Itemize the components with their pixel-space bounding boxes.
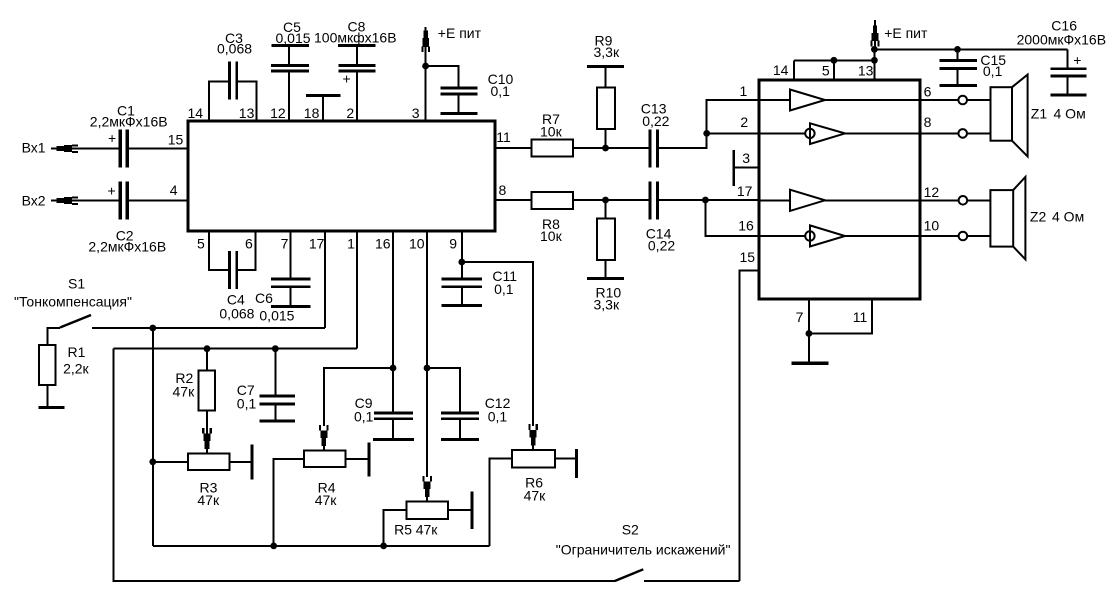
svg-text:4 Ом: 4 Ом xyxy=(1052,209,1084,225)
resistor R7 xyxy=(532,140,574,157)
junction dot R8-C14 xyxy=(602,197,609,204)
svg-text:4 Ом: 4 Ом xyxy=(1054,106,1086,122)
capacitor C8 xyxy=(338,44,376,73)
inverting circle A4 xyxy=(805,231,814,240)
capacitor C6 xyxy=(271,278,311,309)
svg-text:Вх2: Вх2 xyxy=(22,193,46,209)
capacitor C3 xyxy=(228,62,238,100)
svg-text:1: 1 xyxy=(347,236,355,252)
svg-text:0,1: 0,1 xyxy=(491,83,511,99)
wire R7 to C13 xyxy=(573,147,649,149)
svg-text:3: 3 xyxy=(742,150,750,166)
resistor R9 xyxy=(605,129,607,148)
svg-text:4: 4 xyxy=(170,182,178,198)
wire C5 top lead xyxy=(288,47,290,64)
junction dot power rail C15 xyxy=(954,46,961,53)
wire bottom bus xyxy=(153,545,490,547)
resistor R8 xyxy=(532,192,574,209)
wire pin 12 to Z2 xyxy=(920,199,959,201)
svg-text:0,22: 0,22 xyxy=(642,113,669,129)
svg-text:18: 18 xyxy=(304,105,320,121)
svg-text:5: 5 xyxy=(822,63,830,79)
wire power rail xyxy=(874,48,1067,50)
IC U1 (main amplifier IC) xyxy=(188,121,495,231)
junction dot U2 pin17 node xyxy=(702,197,709,204)
wiper arrow R4 xyxy=(319,425,329,446)
svg-text:12: 12 xyxy=(270,105,286,121)
wire C9 bottom lead xyxy=(392,420,394,438)
op-amp triangle A3 xyxy=(790,190,825,211)
svg-text:15: 15 xyxy=(168,132,184,148)
wire left loop to S2 xyxy=(113,349,615,581)
wire branch to pin 16 of U2 xyxy=(705,200,759,236)
capacitor C12 xyxy=(441,412,479,442)
svg-text:3,3к: 3,3к xyxy=(594,44,620,60)
wire pin 14 top xyxy=(793,60,795,80)
R4 right terminal xyxy=(345,458,367,460)
op-amp A3 xyxy=(759,199,790,201)
op-amp triangle A1 xyxy=(790,90,825,111)
resistor R10 xyxy=(605,200,607,218)
wire pin 2 up xyxy=(356,73,358,122)
svg-text:15: 15 xyxy=(740,249,756,265)
wire line B (feedback bus) xyxy=(113,348,357,350)
wire pin 9 down xyxy=(461,231,463,278)
speaker Z1 xyxy=(991,87,1013,141)
wire branch to C12 xyxy=(427,368,460,412)
svg-text:"Ограничитель искажений": "Ограничитель искажений" xyxy=(556,542,731,558)
svg-text:3: 3 xyxy=(412,105,420,121)
svg-text:0,1: 0,1 xyxy=(983,63,1003,79)
wiper arrow R5 xyxy=(422,476,432,497)
capacitor C7 xyxy=(274,349,276,395)
svg-text:C6: C6 xyxy=(255,290,273,306)
svg-text:+: + xyxy=(343,71,351,87)
potentiometer R6 xyxy=(512,450,555,468)
junction dot R3 left xyxy=(149,458,156,465)
wire top bracket xyxy=(794,59,874,61)
speaker Z2 xyxy=(990,190,1013,247)
junction dot R2 top xyxy=(204,345,211,352)
wire C11 bottom lead xyxy=(461,288,463,304)
wire pin 8 to Z1 xyxy=(920,132,958,134)
pin 3 stub of U2 xyxy=(734,166,759,168)
svg-text:47к: 47к xyxy=(315,492,338,508)
svg-text:0,015: 0,015 xyxy=(276,30,311,46)
wire pin 7 down xyxy=(289,231,291,278)
capacitor C4 xyxy=(228,251,238,289)
wire pin 5 top xyxy=(833,60,835,80)
pin 18 open terminal xyxy=(322,97,324,122)
R5 right terminal xyxy=(448,509,470,511)
capacitor C16 xyxy=(1067,49,1069,67)
junction dot bracket pin5 xyxy=(831,57,838,64)
svg-text:2: 2 xyxy=(740,114,748,130)
junction dot C7 top xyxy=(272,345,279,352)
input terminal Bx1 xyxy=(51,148,57,150)
svg-text:Z1: Z1 xyxy=(1031,106,1048,122)
resistor R2 xyxy=(206,349,208,371)
junction dot S1 line xyxy=(149,325,156,332)
svg-text:17: 17 xyxy=(737,183,753,199)
wiper arrow R6 xyxy=(528,424,538,445)
junction dot pin 3 rail xyxy=(422,63,429,70)
wire branch to R4 wiper xyxy=(324,368,393,426)
svg-text:+Е пит: +Е пит xyxy=(438,25,482,41)
wire pin 6 down xyxy=(238,231,256,270)
svg-text:2,2мкФх16В: 2,2мкФх16В xyxy=(88,239,166,255)
IC U2 (output amplifier IC) xyxy=(759,80,920,299)
svg-text:7: 7 xyxy=(281,236,289,252)
wire pin 9 branch to R6 wiper xyxy=(462,262,533,426)
wire pin 8 to R8 xyxy=(495,199,532,201)
svg-text:47к: 47к xyxy=(197,492,220,508)
svg-text:2,2мкФх16В: 2,2мкФх16В xyxy=(90,114,168,130)
potentiometer R5 xyxy=(407,502,449,519)
wire pin 2 of U2 xyxy=(707,132,759,134)
svg-text:5: 5 xyxy=(197,236,205,252)
svg-text:S1: S1 xyxy=(68,276,85,292)
wire R6 left to bus xyxy=(490,459,513,546)
wire pin 12 up xyxy=(288,73,290,122)
junction dot pin16 branch xyxy=(390,365,397,372)
junction dot power rail left xyxy=(871,46,878,53)
wire pin 10 to Z2 xyxy=(920,235,959,237)
svg-text:Вх1: Вх1 xyxy=(22,140,46,156)
capacitor C13 xyxy=(649,130,659,168)
svg-text:+: + xyxy=(108,130,116,146)
op-amp A4 input wire xyxy=(759,235,806,237)
capacitor C5 xyxy=(271,44,309,73)
wire C8 top lead xyxy=(356,47,358,64)
terminal circle pin 10 xyxy=(959,232,968,241)
potentiometer R3 xyxy=(188,454,229,471)
svg-text:10к: 10к xyxy=(540,124,563,140)
svg-text:+: + xyxy=(108,183,116,199)
svg-text:9: 9 xyxy=(449,236,457,252)
svg-text:8: 8 xyxy=(499,182,507,198)
svg-text:0,1: 0,1 xyxy=(488,409,508,425)
switch S1 xyxy=(47,328,60,345)
capacitor C1 xyxy=(119,130,130,168)
svg-text:13: 13 xyxy=(858,63,874,79)
svg-text:0,1: 0,1 xyxy=(354,409,374,425)
svg-text:16: 16 xyxy=(738,218,754,234)
junction dot bus R4 xyxy=(270,543,277,550)
wire pin 3 up xyxy=(425,27,427,121)
svg-text:3,3к: 3,3к xyxy=(594,297,620,313)
wire C10 branch xyxy=(426,66,459,87)
wire line A (tone switch line) xyxy=(92,327,325,329)
wire pin 16 down xyxy=(392,231,394,412)
svg-text:10к: 10к xyxy=(540,228,563,244)
capacitor C10 xyxy=(440,87,477,116)
op-amp A1 xyxy=(759,99,790,101)
wire C1 to pin 15 xyxy=(129,148,188,150)
svg-text:6: 6 xyxy=(245,236,253,252)
svg-text:0,22: 0,22 xyxy=(648,238,675,254)
wire pin 11 to R7 xyxy=(495,147,532,149)
wire S2 to pin 15 of U2 xyxy=(739,270,759,581)
wire C13 to U2 input node xyxy=(659,100,759,148)
wire C6 bottom lead xyxy=(289,288,291,305)
svg-text:11: 11 xyxy=(496,129,511,145)
wire R8 to C14 xyxy=(573,199,649,201)
op-amp triangle A4 xyxy=(810,225,845,246)
resistor R1 xyxy=(39,345,56,385)
svg-text:10: 10 xyxy=(924,218,940,234)
svg-text:47к: 47к xyxy=(524,488,547,504)
wire pin 7 down xyxy=(808,299,810,334)
svg-text:S2: S2 xyxy=(622,522,639,538)
switch S2 xyxy=(615,569,644,581)
wire pin 5 down xyxy=(209,231,229,270)
svg-text:16: 16 xyxy=(375,236,391,252)
capacitor C9 xyxy=(373,412,414,442)
wire pin 10 down xyxy=(426,231,428,477)
svg-text:"Тонкомпенсация": "Тонкомпенсация" xyxy=(14,294,132,310)
svg-text:11: 11 xyxy=(853,309,868,325)
op-amp triangle A2 xyxy=(810,123,845,144)
wire R4 left to bus xyxy=(274,459,304,546)
inverting circle A2 xyxy=(805,129,814,138)
wire S1 branch down xyxy=(152,328,154,546)
capacitor C14 xyxy=(649,182,659,220)
svg-text:14: 14 xyxy=(773,62,789,78)
svg-text:0,1: 0,1 xyxy=(237,396,257,412)
junction dot pin10 branch xyxy=(424,365,431,372)
svg-text:7: 7 xyxy=(796,309,804,325)
junction dot U2 pin2 node xyxy=(703,130,710,137)
svg-text:0,068: 0,068 xyxy=(219,306,254,322)
wire Bx1 to C1 xyxy=(72,148,119,150)
wire C12 bottom lead xyxy=(459,420,461,438)
svg-text:0,015: 0,015 xyxy=(259,308,294,324)
wiper arrow R2 to R3 xyxy=(206,410,208,453)
wire Bx2 to C2 xyxy=(72,200,119,202)
svg-text:+: + xyxy=(1073,52,1081,68)
junction dot pin9 branch xyxy=(458,259,465,266)
svg-text:1: 1 xyxy=(740,83,748,99)
junction dot U2 ground xyxy=(806,330,813,337)
terminal circle pin 8 xyxy=(958,129,967,138)
svg-text:12: 12 xyxy=(924,184,940,200)
capacitor C15 xyxy=(957,49,959,59)
capacitor C11 xyxy=(441,278,482,308)
svg-text:+Е пит: +Е пит xyxy=(884,25,928,41)
junction dot R7-C13 xyxy=(602,145,609,152)
svg-text:100мкфх16В: 100мкфх16В xyxy=(314,30,397,46)
wire R5 left to bus xyxy=(384,510,407,546)
svg-text:47к: 47к xyxy=(173,384,196,400)
svg-text:2000мкФх16В: 2000мкФх16В xyxy=(1017,32,1106,48)
wire pin 17 down to line A xyxy=(324,231,326,328)
svg-text:17: 17 xyxy=(309,236,325,252)
wire pin 6 to Z1 xyxy=(920,99,958,101)
junction dot bus R5 xyxy=(380,543,387,550)
wire pin 13 up xyxy=(238,82,257,122)
svg-text:2: 2 xyxy=(346,105,354,121)
power arrow +E right xyxy=(874,20,876,49)
svg-text:8: 8 xyxy=(924,114,932,130)
terminal circle pin 6 xyxy=(958,96,967,105)
wire C14 to pin 17 of U2 xyxy=(659,199,759,201)
svg-text:R1: R1 xyxy=(68,344,86,360)
svg-text:47к: 47к xyxy=(416,522,439,538)
wire pin 13 top xyxy=(873,49,875,80)
wire pin 11 down xyxy=(809,299,872,334)
svg-text:10: 10 xyxy=(409,236,425,252)
svg-text:2,2к: 2,2к xyxy=(63,361,89,377)
svg-text:14: 14 xyxy=(188,105,204,121)
wire pin 14 up xyxy=(209,82,229,122)
svg-text:6: 6 xyxy=(924,84,932,100)
ground lead U2 xyxy=(808,334,810,362)
wire pin 1 down to line B xyxy=(356,231,358,349)
power arrow +E left xyxy=(421,30,430,52)
svg-text:Z2: Z2 xyxy=(1030,209,1047,225)
wire C2 to pin 4 xyxy=(129,200,188,202)
svg-text:0,068: 0,068 xyxy=(217,41,252,57)
svg-text:0,1: 0,1 xyxy=(494,281,514,297)
svg-text:13: 13 xyxy=(239,105,255,121)
input terminal Bx2 xyxy=(51,200,57,202)
op-amp A2 input wire xyxy=(759,132,806,134)
terminal circle pin 12 xyxy=(959,196,968,205)
R6 right terminal xyxy=(555,458,575,460)
svg-text:R5: R5 xyxy=(394,522,412,538)
potentiometer R4 xyxy=(304,451,346,468)
junction dot bracket pin13 xyxy=(871,57,878,64)
capacitor C2 xyxy=(119,182,130,220)
wire C10 bottom lead xyxy=(458,96,460,113)
